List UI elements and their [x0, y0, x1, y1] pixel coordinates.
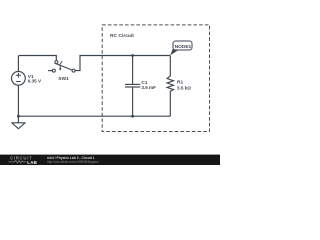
switch SW1: [48, 61, 75, 73]
svg-text:RC Circuit: RC Circuit: [110, 33, 134, 39]
footer bar: [0, 155, 220, 165]
node junction dot bottom (C1 tap): [131, 115, 134, 118]
capacitor C1: [125, 56, 140, 117]
node junction dot top (C1 tap): [131, 54, 134, 57]
node NODE1 flag callout: [170, 41, 192, 55]
wire: left branch V1 bottom to ground junction: [17, 85, 19, 116]
actuator arrow: [59, 65, 61, 69]
terminal C (left throw, open) with stub: [48, 70, 52, 72]
svg-text:http://circuitlab.com/c/99998/: http://circuitlab.com/c/99998/8kgamn: [47, 160, 99, 164]
dashed enclosure box "RC Circuit": [102, 25, 209, 132]
svg-text:LAB: LAB: [27, 160, 37, 165]
terminal A (top): [55, 61, 58, 64]
svg-text:6.35 V: 6.35 V: [28, 79, 42, 84]
label R1 3.5 kOhm: [177, 80, 191, 91]
wire: top from V1 to switch: [18, 56, 56, 72]
label SW1: [58, 76, 69, 82]
svg-text:3.5 kΩ: 3.5 kΩ: [177, 86, 191, 91]
CircuitLab logo: [9, 155, 38, 165]
svg-text:SW1: SW1: [58, 76, 69, 82]
ground: [12, 116, 26, 129]
footer caption line 2 (url): [47, 160, 99, 164]
wire: bottom return wire: [18, 115, 170, 117]
resistor R1: [167, 56, 173, 117]
node junction dot ground tap: [17, 115, 20, 118]
voltage source V1: [12, 71, 26, 85]
svg-text:NODE1: NODE1: [175, 44, 192, 50]
label V1 6.35 V: [28, 74, 42, 84]
terminal B (common, right): [72, 69, 75, 72]
label C1 3.5 mF: [141, 80, 156, 90]
actuator tick: [59, 61, 62, 65]
footer caption line 1: [47, 156, 95, 160]
wire: switch output up and right to R1 branch: [75, 56, 170, 71]
blade: [55, 63, 73, 70]
svg-text:3.5 mF: 3.5 mF: [141, 85, 156, 90]
label RC Circuit: [110, 33, 134, 39]
